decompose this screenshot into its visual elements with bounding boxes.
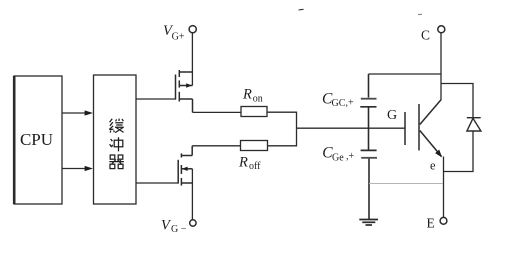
svg-text:e: e xyxy=(430,159,436,173)
label e xyxy=(430,159,436,173)
label V_G- xyxy=(161,218,187,236)
wire Q2 drain to R_off xyxy=(192,145,240,147)
stray mark xyxy=(299,9,423,14)
diode D1 xyxy=(467,118,481,131)
svg-text:off: off xyxy=(249,161,261,172)
transistor Q1 (PMOS) xyxy=(176,70,193,112)
wire C_GC to collector xyxy=(369,73,442,75)
svg-text:on: on xyxy=(253,94,263,105)
buffer label 缓冲器 (hand-drawn glyphs) xyxy=(109,119,124,169)
冲 xyxy=(110,137,123,151)
capacitor C_Ge xyxy=(361,128,377,219)
IGBT U1 xyxy=(405,100,442,158)
svg-text:R: R xyxy=(238,155,248,171)
CPU label xyxy=(20,130,53,149)
label R_off xyxy=(238,155,261,173)
wire diode bottom to emitter xyxy=(443,131,473,172)
terminal E xyxy=(440,217,447,224)
wire to diode top xyxy=(441,84,473,118)
CPU box xyxy=(14,76,62,204)
arrow CPU to buffer 2 xyxy=(62,166,93,171)
svg-text:GC: GC xyxy=(332,98,346,109)
wire buffer to Q2 gate xyxy=(136,182,178,184)
label E xyxy=(427,216,435,231)
transistor Q2 (NMOS) xyxy=(178,146,192,186)
svg-text:E: E xyxy=(427,216,435,231)
svg-text:CPU: CPU xyxy=(20,130,53,149)
wire Q2 source to V_G- xyxy=(191,169,193,220)
label C_Ge,+ xyxy=(322,145,354,164)
terminal C xyxy=(438,26,445,33)
capacitor C_GC xyxy=(360,74,376,128)
terminal V_G+ xyxy=(189,26,196,33)
svg-text:,+: ,+ xyxy=(346,98,355,109)
resistor R_on xyxy=(241,107,267,117)
label G xyxy=(387,108,397,123)
svg-text:G+: G+ xyxy=(172,31,185,42)
wire gate node xyxy=(297,127,405,129)
label C xyxy=(421,28,430,43)
terminal V_G- xyxy=(190,220,196,226)
wire R_on to junction xyxy=(267,112,297,128)
器 xyxy=(109,155,124,169)
faint wire C_Ge to emitter xyxy=(369,183,443,185)
svg-text:C: C xyxy=(421,28,430,43)
wire emitter xyxy=(443,157,445,218)
ground xyxy=(359,220,378,226)
wire Q1 source to R_on xyxy=(193,111,242,113)
label C_GC,+ xyxy=(322,90,354,109)
svg-text:Ge: Ge xyxy=(332,152,344,163)
缓 xyxy=(109,119,124,133)
svg-text:,+: ,+ xyxy=(346,151,355,162)
wire buffer to Q1 gate xyxy=(136,98,176,100)
label R_on xyxy=(242,87,263,105)
wire collector xyxy=(440,33,442,101)
buffer box xyxy=(94,75,137,204)
resistor R_off xyxy=(241,141,268,151)
svg-text:G −: G − xyxy=(171,224,187,235)
arrow CPU to buffer 1 xyxy=(62,110,93,115)
wire R_off to junction xyxy=(268,128,297,146)
label V_G+ xyxy=(163,23,185,42)
svg-text:G: G xyxy=(387,108,397,123)
wire V_G+ to Q1 xyxy=(191,33,193,86)
svg-text:R: R xyxy=(242,87,252,103)
